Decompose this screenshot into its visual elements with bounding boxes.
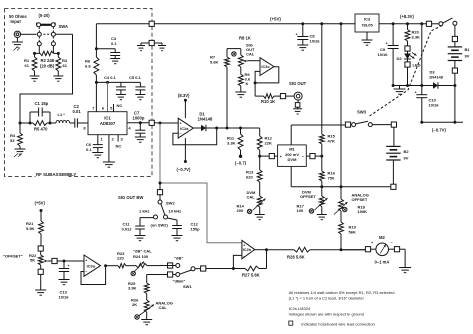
svg-text:(20 dB): (20 dB) <box>40 64 55 69</box>
svg-text:“dB”: “dB” <box>174 256 183 261</box>
svg-text:53: 53 <box>10 138 15 143</box>
svg-text:+: + <box>371 241 374 245</box>
svg-text:C1 15p: C1 15p <box>35 101 49 106</box>
svg-text:All resistors 1/4 watt carbon: All resistors 1/4 watt carbon 5% except … <box>289 290 395 295</box>
svg-text:AD8307: AD8307 <box>100 121 116 126</box>
svg-text:D2: D2 <box>397 56 403 61</box>
svg-text:IC3: IC3 <box>364 17 371 22</box>
svg-text:OFFSET: OFFSET <box>352 197 368 202</box>
svg-text:0.1: 0.1 <box>111 41 117 46</box>
svg-text:R24 100: R24 100 <box>133 254 149 259</box>
svg-text:Input: Input <box>11 19 22 24</box>
svg-text:SW1: SW1 <box>183 284 192 289</box>
svg-text:1: 1 <box>101 137 104 142</box>
svg-text:+: + <box>415 91 418 95</box>
svg-text:+: + <box>85 259 87 263</box>
svg-text:DVM: DVM <box>288 157 298 162</box>
svg-text:1N4148: 1N4148 <box>198 117 213 122</box>
svg-text:−: − <box>179 132 181 136</box>
svg-text:M1: M1 <box>289 147 295 152</box>
svg-text:“OFFSET”: “OFFSET” <box>3 254 23 259</box>
svg-text:1N4148: 1N4148 <box>429 75 444 80</box>
svg-text:78L05: 78L05 <box>361 23 373 28</box>
svg-text:9V: 9V <box>404 156 409 161</box>
svg-text:220: 220 <box>117 256 124 261</box>
svg-text:SIG OUT BW: SIG OUT BW <box>118 195 143 200</box>
svg-text:R28 5.6K: R28 5.6K <box>287 255 305 260</box>
svg-text:IC2s LM324: IC2s LM324 <box>289 306 311 311</box>
svg-text:10/16: 10/16 <box>378 52 389 57</box>
svg-text:10/16: 10/16 <box>310 39 321 44</box>
svg-text:8: 8 <box>83 126 86 131</box>
svg-text:150p: 150p <box>191 227 201 232</box>
svg-text:7: 7 <box>92 106 95 111</box>
svg-text:750: 750 <box>328 176 335 181</box>
svg-text:CAL: CAL <box>159 305 168 310</box>
svg-text:3.9K: 3.9K <box>128 286 137 291</box>
svg-text:(−0.7): (−0.7) <box>235 161 247 166</box>
svg-text:NC: NC <box>117 103 123 108</box>
svg-text:(+5V): (+5V) <box>270 17 281 22</box>
svg-text:indicates hoseboard wire lead: indicates hoseboard wire lead connection <box>301 321 374 326</box>
svg-text:0.01: 0.01 <box>73 109 82 114</box>
svg-text:M2: M2 <box>379 235 385 240</box>
svg-text:L1 *: L1 * <box>58 112 66 117</box>
svg-text:IC1: IC1 <box>104 116 111 121</box>
svg-text:−: − <box>243 254 245 258</box>
svg-text:“dBm”: “dBm” <box>173 279 186 284</box>
svg-text:SW3: SW3 <box>357 110 367 115</box>
svg-text:B1: B1 <box>465 47 471 52</box>
svg-text:RF SUBASSEMBLY: RF SUBASSEMBLY <box>36 172 76 177</box>
svg-text:2K: 2K <box>132 302 137 307</box>
svg-text:OFFSET: OFFSET <box>300 194 316 199</box>
svg-text:IC2b: IC2b <box>243 247 252 252</box>
svg-text:1 kHz: 1 kHz <box>139 209 149 214</box>
svg-text:4: 4 <box>128 126 131 131</box>
svg-text:+: + <box>296 33 299 37</box>
svg-text:56K: 56K <box>349 230 356 235</box>
svg-text:6.8: 6.8 <box>85 64 91 69</box>
svg-text:+: + <box>68 264 70 268</box>
svg-text:61: 61 <box>63 63 68 68</box>
svg-text:5: 5 <box>110 106 113 111</box>
svg-text:R5 470: R5 470 <box>34 127 48 132</box>
svg-text:(8.3V): (8.3V) <box>178 93 190 98</box>
svg-text:6: 6 <box>102 106 105 111</box>
svg-text:NC: NC <box>116 144 122 149</box>
svg-text:100K: 100K <box>358 209 368 214</box>
svg-text:9V: 9V <box>465 54 470 59</box>
svg-text:C5 0.1: C5 0.1 <box>129 75 142 80</box>
svg-text:CAL: CAL <box>247 195 256 200</box>
svg-text:3.3K: 3.3K <box>227 141 236 146</box>
svg-text:10/16: 10/16 <box>59 295 70 300</box>
svg-text:620: 620 <box>246 175 253 180</box>
svg-text:−: − <box>391 240 394 244</box>
svg-text:IC3c: IC3c <box>261 64 270 69</box>
svg-text:200 mV: 200 mV <box>285 152 299 157</box>
svg-text:(+5V): (+5V) <box>35 201 46 206</box>
svg-text:0.012: 0.012 <box>122 227 133 232</box>
svg-text:10/16: 10/16 <box>429 103 440 108</box>
svg-text:SIG OUT: SIG OUT <box>289 81 307 86</box>
svg-text:(0-20): (0-20) <box>39 13 51 18</box>
svg-text:B2: B2 <box>404 149 410 154</box>
svg-text:−: − <box>85 270 87 274</box>
svg-text:100: 100 <box>297 208 304 213</box>
svg-text:IC2a: IC2a <box>180 126 189 131</box>
svg-text:5.6K: 5.6K <box>210 60 219 65</box>
svg-text:“dB” CAL: “dB” CAL <box>133 249 152 254</box>
svg-text:CAL: CAL <box>246 52 255 57</box>
svg-text:R27 5.6K: R27 5.6K <box>242 273 260 278</box>
svg-text:(L1 *) = 1 turn of a C2 lead,: (L1 *) = 1 turn of a C2 lead, 3/16" diam… <box>289 295 365 300</box>
svg-text:5.9K: 5.9K <box>26 226 35 231</box>
svg-text:0.1: 0.1 <box>86 147 92 152</box>
svg-text:10 kHz: 10 kHz <box>169 209 182 214</box>
svg-text:SW2: SW2 <box>166 201 175 206</box>
svg-text:+: + <box>386 42 389 46</box>
svg-text:22K: 22K <box>265 141 272 146</box>
svg-text:K: K <box>246 81 249 86</box>
svg-text:3: 3 <box>121 137 124 142</box>
svg-text:(−0.7V): (−0.7V) <box>177 167 191 172</box>
svg-text:2: 2 <box>112 137 115 142</box>
svg-text:0–1 mA: 0–1 mA <box>375 260 390 265</box>
svg-text:+: + <box>179 122 181 126</box>
svg-text:(on SW2): (on SW2) <box>151 223 169 228</box>
svg-text:1000p: 1000p <box>133 116 145 121</box>
svg-text:(+8.3V): (+8.3V) <box>400 14 414 19</box>
svg-text:IC3a: IC3a <box>87 263 96 268</box>
svg-text:(−0.7V): (−0.7V) <box>432 128 446 133</box>
svg-text:200: 200 <box>237 208 244 213</box>
svg-text:3.3K: 3.3K <box>412 35 421 40</box>
svg-text:5K: 5K <box>30 258 35 263</box>
svg-text:47K: 47K <box>328 139 335 144</box>
svg-text:SWA: SWA <box>59 24 69 29</box>
svg-text:C4 0.1: C4 0.1 <box>104 75 117 80</box>
svg-text:R10 1K: R10 1K <box>261 99 275 104</box>
svg-text:61: 61 <box>25 63 30 68</box>
svg-text:Voltages shown are with respec: Voltages shown are with respect to groun… <box>289 312 364 317</box>
svg-text:+: + <box>243 243 245 247</box>
svg-text:R8 1K: R8 1K <box>239 36 251 41</box>
svg-text:R2 248: R2 248 <box>41 58 55 63</box>
